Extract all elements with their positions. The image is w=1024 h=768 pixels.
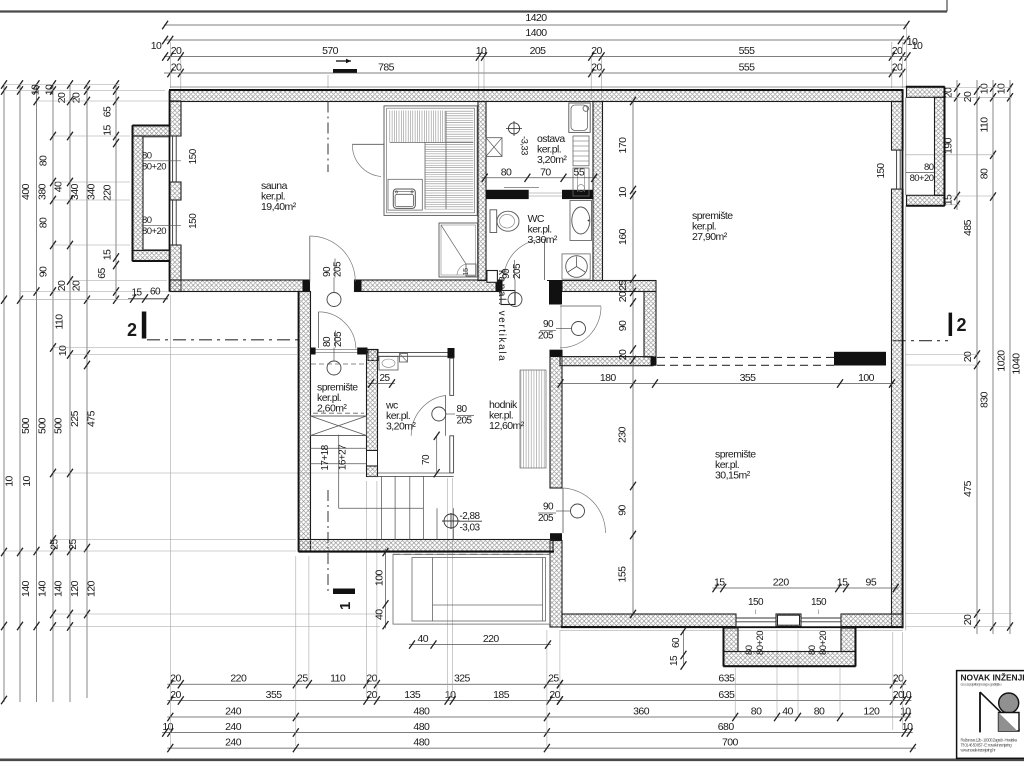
svg-text:140: 140	[20, 580, 32, 597]
svg-text:15: 15	[837, 577, 848, 589]
svg-text:d.o.o. za projektiranje i uslu: d.o.o. za projektiranje i usluge u gradi…	[961, 683, 1002, 687]
svg-text:60: 60	[671, 637, 682, 648]
svg-text:80: 80	[501, 166, 512, 178]
svg-text:400: 400	[20, 183, 32, 200]
svg-text:205: 205	[538, 513, 554, 524]
svg-text:205: 205	[538, 331, 554, 342]
svg-text:17+18: 17+18	[320, 444, 331, 470]
svg-text:150: 150	[811, 597, 827, 608]
svg-text:25: 25	[548, 673, 559, 685]
svg-text:20: 20	[591, 45, 602, 57]
svg-text:205: 205	[530, 45, 547, 57]
svg-text:355: 355	[740, 372, 757, 384]
svg-text:kanal. vertikala: kanal. vertikala	[496, 270, 507, 362]
svg-text:80: 80	[142, 150, 152, 161]
svg-text:20: 20	[56, 280, 68, 291]
svg-text:80+20: 80+20	[142, 161, 166, 172]
svg-text:140: 140	[53, 580, 65, 597]
svg-text:10: 10	[996, 83, 1008, 94]
svg-text:500: 500	[53, 417, 65, 434]
svg-text:80+20: 80+20	[818, 631, 829, 655]
svg-text:80: 80	[457, 404, 468, 415]
svg-text:155: 155	[617, 566, 629, 583]
svg-text:80: 80	[924, 162, 934, 173]
svg-text:15: 15	[714, 577, 725, 589]
svg-text:10: 10	[162, 721, 173, 733]
svg-text:20: 20	[893, 673, 904, 685]
svg-text:785: 785	[378, 62, 395, 74]
svg-text:10: 10	[30, 84, 42, 95]
svg-text:500: 500	[37, 417, 49, 434]
svg-text:80: 80	[751, 706, 762, 718]
svg-text:220: 220	[483, 633, 500, 645]
svg-text:150: 150	[748, 597, 764, 608]
svg-text:20: 20	[170, 673, 181, 685]
svg-text:20: 20	[71, 280, 83, 291]
svg-text:30,15m²: 30,15m²	[715, 470, 751, 482]
svg-text:25: 25	[617, 280, 629, 291]
svg-text:20: 20	[170, 689, 181, 701]
svg-text:20: 20	[617, 349, 629, 360]
svg-text:1420: 1420	[525, 12, 547, 24]
svg-text:20: 20	[56, 92, 68, 103]
svg-text:40: 40	[417, 633, 428, 645]
svg-text:120: 120	[863, 706, 880, 718]
svg-text:110: 110	[54, 314, 66, 330]
svg-text:80: 80	[38, 217, 50, 228]
svg-text:480: 480	[413, 706, 430, 718]
svg-text:680: 680	[718, 721, 735, 733]
svg-text:19,40m²: 19,40m²	[261, 201, 297, 213]
svg-text:90: 90	[543, 502, 554, 513]
svg-text:65: 65	[102, 106, 114, 117]
svg-text:90: 90	[617, 320, 629, 331]
svg-text:220: 220	[230, 673, 247, 685]
svg-text:15: 15	[461, 268, 470, 276]
svg-text:25: 25	[67, 539, 79, 550]
svg-text:570: 570	[322, 45, 339, 57]
svg-text:16+27: 16+27	[338, 444, 349, 470]
svg-text:700: 700	[722, 737, 739, 749]
svg-text:240: 240	[225, 706, 242, 718]
svg-text:3,30m²: 3,30m²	[528, 234, 558, 246]
svg-text:20: 20	[962, 351, 974, 362]
svg-text:10: 10	[57, 345, 69, 356]
svg-text:20: 20	[366, 689, 377, 701]
svg-text:20: 20	[892, 45, 903, 57]
svg-text:140: 140	[37, 580, 49, 597]
svg-text:80: 80	[814, 706, 825, 718]
svg-text:70: 70	[540, 166, 551, 178]
svg-text:485: 485	[962, 219, 974, 236]
svg-text:90: 90	[543, 319, 554, 330]
svg-text:10: 10	[445, 689, 456, 701]
svg-text:150: 150	[876, 163, 887, 179]
svg-text:2: 2	[957, 315, 967, 335]
svg-text:480: 480	[413, 737, 430, 749]
svg-text:60: 60	[150, 287, 161, 298]
svg-text:10: 10	[617, 187, 629, 198]
svg-text:3,20m²: 3,20m²	[386, 421, 416, 433]
svg-text:10: 10	[21, 476, 33, 487]
svg-text:www.novak-inzenjering.hr: www.novak-inzenjering.hr	[961, 748, 997, 753]
svg-text:830: 830	[979, 391, 991, 408]
svg-text:80: 80	[322, 336, 333, 347]
svg-text:150: 150	[188, 213, 199, 229]
svg-text:10: 10	[902, 721, 913, 733]
svg-text:240: 240	[225, 737, 242, 749]
svg-text:20: 20	[366, 673, 377, 685]
svg-text:2,60m²: 2,60m²	[317, 403, 347, 415]
svg-text:355: 355	[266, 689, 283, 701]
svg-text:205: 205	[333, 331, 344, 347]
svg-text:NOVAK INŽENJERING d.o.o.: NOVAK INŽENJERING d.o.o.	[961, 672, 1024, 683]
svg-text:225: 225	[69, 410, 81, 427]
svg-text:1400: 1400	[525, 27, 547, 39]
svg-text:635: 635	[718, 673, 735, 685]
svg-text:95: 95	[866, 577, 877, 589]
svg-text:380: 380	[37, 183, 49, 200]
svg-text:10: 10	[900, 706, 911, 718]
svg-text:500: 500	[20, 417, 32, 434]
svg-text:170: 170	[617, 137, 629, 154]
svg-text:110: 110	[979, 117, 991, 133]
svg-text:70: 70	[421, 454, 432, 465]
svg-text:340: 340	[86, 183, 98, 200]
svg-text:90: 90	[38, 266, 50, 277]
svg-text:340: 340	[69, 183, 81, 200]
svg-text:185: 185	[493, 689, 510, 701]
svg-text:20: 20	[171, 62, 182, 74]
svg-text:15: 15	[102, 125, 114, 136]
svg-text:40: 40	[53, 181, 65, 192]
svg-text:205: 205	[512, 263, 523, 279]
svg-text:2: 2	[127, 320, 137, 340]
svg-text:230: 230	[617, 426, 629, 443]
svg-text:205: 205	[457, 416, 473, 427]
svg-text:160: 160	[617, 228, 629, 245]
svg-text:555: 555	[739, 62, 756, 74]
svg-text:150: 150	[188, 148, 199, 164]
svg-text:220: 220	[773, 577, 790, 589]
svg-text:25: 25	[379, 373, 390, 384]
svg-text:80+20: 80+20	[755, 631, 766, 655]
svg-text:10: 10	[901, 689, 912, 701]
svg-text:80: 80	[38, 155, 50, 166]
svg-text:10: 10	[4, 476, 16, 487]
svg-text:635: 635	[718, 689, 735, 701]
svg-text:475: 475	[962, 480, 974, 497]
svg-text:80: 80	[142, 215, 152, 226]
svg-text:80+20: 80+20	[142, 226, 166, 237]
svg-text:15: 15	[669, 655, 680, 666]
svg-text:15: 15	[131, 288, 142, 299]
svg-text:100: 100	[858, 372, 875, 384]
svg-text:555: 555	[739, 45, 756, 57]
svg-text:480: 480	[413, 721, 430, 733]
svg-text:27,90m²: 27,90m²	[692, 231, 728, 243]
svg-text:20: 20	[892, 62, 903, 74]
svg-text:120: 120	[69, 580, 81, 597]
svg-text:15: 15	[102, 249, 114, 260]
svg-text:55: 55	[574, 166, 585, 178]
svg-text:25: 25	[297, 673, 308, 685]
svg-text:90: 90	[617, 505, 629, 516]
svg-text:325: 325	[454, 673, 471, 685]
svg-text:-3,33: -3,33	[519, 136, 530, 155]
svg-text:100: 100	[374, 570, 386, 587]
svg-text:10: 10	[476, 45, 487, 57]
svg-text:80: 80	[979, 168, 991, 179]
svg-text:1: 1	[337, 602, 354, 610]
svg-text:20: 20	[962, 614, 974, 625]
svg-text:3,20m²: 3,20m²	[537, 154, 567, 166]
svg-text:40: 40	[374, 609, 386, 620]
svg-text:-2,88: -2,88	[460, 511, 481, 522]
svg-text:360: 360	[633, 706, 650, 718]
svg-text:-3,03: -3,03	[460, 523, 481, 534]
svg-text:80: 80	[807, 645, 818, 655]
svg-text:40: 40	[782, 706, 793, 718]
svg-text:135: 135	[404, 689, 421, 701]
svg-text:475: 475	[86, 410, 98, 427]
svg-text:10: 10	[151, 40, 162, 52]
svg-text:12,60m²: 12,60m²	[489, 420, 525, 432]
svg-text:65: 65	[96, 268, 108, 279]
svg-text:1040: 1040	[1011, 353, 1023, 375]
svg-text:1020: 1020	[996, 350, 1008, 372]
svg-text:240: 240	[225, 721, 242, 733]
svg-text:220: 220	[102, 184, 114, 201]
svg-text:20: 20	[171, 45, 182, 57]
svg-text:90: 90	[322, 266, 333, 277]
svg-text:180: 180	[600, 372, 617, 384]
svg-text:80: 80	[744, 645, 755, 655]
svg-text:20: 20	[549, 689, 560, 701]
svg-text:20: 20	[962, 91, 974, 102]
svg-text:10: 10	[979, 83, 991, 94]
svg-text:20: 20	[617, 291, 629, 302]
svg-text:10: 10	[907, 36, 918, 48]
svg-text:120: 120	[86, 580, 98, 597]
svg-text:20: 20	[591, 62, 602, 74]
svg-text:80+20: 80+20	[910, 173, 934, 184]
svg-text:110: 110	[330, 673, 346, 685]
svg-text:205: 205	[333, 261, 344, 277]
